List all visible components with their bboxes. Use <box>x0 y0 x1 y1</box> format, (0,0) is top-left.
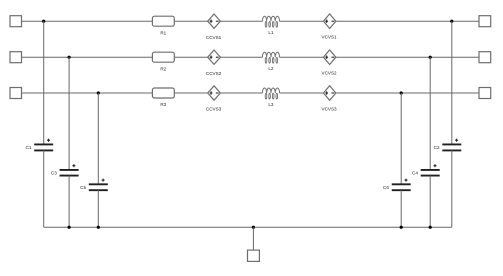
VCVS source VCVS2 <box>322 50 338 76</box>
resistor R2 <box>152 52 174 71</box>
capacitor C5 <box>80 179 108 191</box>
wire: row 2 right junction down to C4 <box>429 57 431 170</box>
inductor L3 <box>262 88 279 107</box>
capacitor C1 <box>26 139 54 151</box>
svg-text:CCVS2: CCVS2 <box>206 71 222 76</box>
svg-text:C2: C2 <box>434 145 440 150</box>
port J1L (left terminal row 1) <box>10 16 22 27</box>
port J2R (right terminal row 2) <box>479 52 491 63</box>
CCVS source CCVS2 <box>206 50 222 76</box>
wire row 2: VCVS2 to right port <box>336 56 479 58</box>
svg-text:VCVS1: VCVS1 <box>322 35 338 40</box>
wire row 3: CCVS3 to L3 <box>220 92 262 94</box>
node row 1 right junction <box>450 20 453 23</box>
capacitor C4 <box>412 164 440 175</box>
node row 2 left junction <box>68 56 71 59</box>
svg-text:C6: C6 <box>383 185 389 190</box>
wire: row 2 left junction down to C3 <box>68 57 70 170</box>
svg-text:VCVS3: VCVS3 <box>322 106 338 111</box>
CCVS source CCVS1 <box>206 14 222 40</box>
wire row 1: L1 to VCVS1 <box>280 20 324 22</box>
port J1R (right terminal row 1) <box>479 16 491 27</box>
wire: row 3 right junction down to C6 <box>400 93 402 184</box>
wire row 2: CCVS2 to L2 <box>220 56 262 58</box>
resistor R3 <box>152 88 174 107</box>
svg-text:C5: C5 <box>80 185 86 190</box>
wire row 3: left port to R3 <box>22 92 153 94</box>
svg-text:L3: L3 <box>268 102 274 107</box>
wire row 2: left port to R2 <box>22 56 153 58</box>
wire: C3 down to ground bus <box>68 176 70 228</box>
wire: bus to ground port <box>252 227 254 250</box>
wire: row 1 left junction down to C1 <box>43 21 45 144</box>
svg-text:C3: C3 <box>51 171 57 176</box>
node row 1 left junction <box>42 20 45 23</box>
node row 3 right junction <box>400 91 403 94</box>
wire row 1: left port to R1 <box>22 20 153 22</box>
wire row 1: R1 to CCVS1 <box>174 20 207 22</box>
VCVS source VCVS1 <box>322 14 338 40</box>
node bus junction at x=69.1 <box>68 226 71 229</box>
node bus junction at x=430.2 <box>429 226 432 229</box>
VCVS source VCVS3 <box>322 86 338 112</box>
ground port J0 <box>248 250 260 261</box>
port J3L (left terminal row 3) <box>10 88 22 99</box>
wire: ground bus <box>44 226 452 228</box>
svg-text:C4: C4 <box>412 171 418 176</box>
wire row 3: VCVS3 to right port <box>336 92 479 94</box>
wire: C4 down to ground bus <box>429 176 431 228</box>
svg-text:R2: R2 <box>160 66 166 71</box>
node bus junction at x=98.3 <box>97 226 100 229</box>
svg-text:CCVS3: CCVS3 <box>206 107 222 112</box>
inductor L1 <box>262 16 279 35</box>
wire row 1: CCVS1 to L1 <box>220 20 262 22</box>
port J2L (left terminal row 2) <box>10 52 22 63</box>
capacitor C3 <box>51 164 79 175</box>
wire: row 1 right junction down to C2 <box>451 21 453 144</box>
node row 3 left junction <box>97 91 100 94</box>
svg-text:L2: L2 <box>268 66 274 71</box>
wire: C5 down to ground bus <box>97 190 99 227</box>
wire: C2 down to ground bus <box>451 150 453 227</box>
resistor R1 <box>152 16 174 35</box>
port J3R (right terminal row 3) <box>479 88 491 99</box>
wire row 2: L2 to VCVS2 <box>280 56 324 58</box>
inductor L2 <box>262 52 279 71</box>
wire: row 3 left junction down to C5 <box>97 93 99 184</box>
svg-text:R1: R1 <box>160 30 166 35</box>
wire row 1: VCVS1 to right port <box>336 20 479 22</box>
wire: C1 down to ground bus <box>43 150 45 227</box>
capacitor C2 <box>434 139 462 151</box>
wire row 3: L3 to VCVS3 <box>280 92 324 94</box>
CCVS source CCVS3 <box>206 86 222 112</box>
node row 2 right junction <box>429 56 432 59</box>
svg-text:CCVS1: CCVS1 <box>206 35 222 40</box>
node bus junction at x=253.4 <box>252 226 255 229</box>
svg-text:VCVS2: VCVS2 <box>322 71 338 76</box>
wire row 3: R3 to CCVS3 <box>174 92 207 94</box>
node bus junction at x=401.2 <box>400 226 403 229</box>
svg-text:C1: C1 <box>26 145 32 150</box>
wire: C6 down to ground bus <box>400 190 402 227</box>
capacitor C6 <box>383 179 411 191</box>
wire row 2: R2 to CCVS2 <box>174 56 207 58</box>
svg-text:L1: L1 <box>268 30 274 35</box>
svg-text:R3: R3 <box>160 102 166 107</box>
